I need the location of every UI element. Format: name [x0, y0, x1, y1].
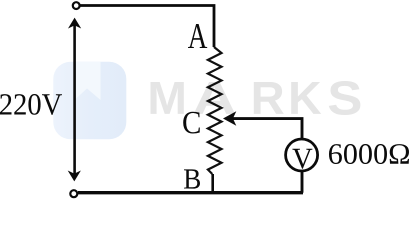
node B: [184, 169, 200, 188]
wiper wire with arrow: [223, 111, 302, 139]
watermark text MARKS: [151, 81, 361, 115]
resistor (potentiometer track): [208, 47, 222, 174]
wire B to bottom rail: [211, 174, 214, 193]
terminal bottom-left: [70, 190, 77, 197]
node C: [183, 112, 200, 134]
voltmeter stem bottom: [301, 172, 304, 193]
terminal top-left: [73, 2, 80, 9]
label 220V: [0, 94, 62, 115]
value 6000 ohm: [329, 144, 409, 164]
watermark logo: [53, 62, 126, 139]
node A: [188, 24, 207, 48]
bottom rail wire: [78, 191, 303, 194]
source arrow 220V: [68, 18, 82, 182]
wire top rail: [80, 6, 214, 48]
voltmeter V1: [286, 139, 318, 171]
